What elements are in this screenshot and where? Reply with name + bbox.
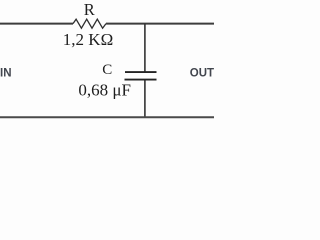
svg-text:1,2 KΩ: 1,2 KΩ: [63, 30, 113, 49]
wire capacitor top lead: [144, 24, 146, 72]
svg-text:IN: IN: [0, 67, 12, 79]
wire bottom rail: [0, 116, 214, 118]
wire top-left segment: [0, 23, 73, 25]
svg-text:OUT: OUT: [190, 67, 214, 79]
resistor R: [73, 19, 106, 28]
svg-text:R: R: [84, 0, 95, 19]
capacitor C bottom plate: [125, 79, 157, 81]
svg-text:0,68 μF: 0,68 μF: [78, 81, 131, 100]
wire capacitor bottom lead: [144, 80, 146, 117]
svg-text:C: C: [102, 62, 112, 78]
capacitor C top plate: [125, 71, 157, 73]
wire top-right segment: [106, 23, 214, 25]
